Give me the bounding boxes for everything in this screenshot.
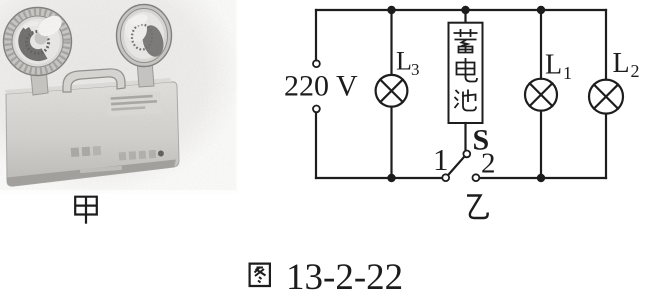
left lamp stalk — [30, 66, 48, 95]
battery char 电 — [457, 58, 478, 82]
220V upper terminal — [313, 60, 320, 67]
L3 branch upper wire — [390, 10, 392, 75]
left vertical upper — [315, 10, 317, 60]
label 乙 — [467, 196, 488, 219]
node: L3 bottom junction — [387, 174, 395, 182]
svg-text:L: L — [613, 48, 630, 79]
label 甲 — [75, 197, 97, 224]
battery branch top wire — [464, 10, 466, 23]
node: L1 top junction — [537, 6, 545, 14]
battery to switch wire — [464, 123, 466, 151]
L3 branch lower wire — [390, 107, 392, 178]
node: L3 top junction — [387, 6, 395, 14]
svg-text:3: 3 — [411, 60, 420, 79]
right lamp stalk — [137, 61, 154, 87]
tiny text line bottom of body — [80, 166, 122, 173]
body of unit — [5, 78, 179, 186]
indicator row — [119, 149, 164, 160]
svg-text:1: 1 — [563, 63, 572, 83]
caption char 图 — [250, 264, 270, 286]
left lamp head — [4, 8, 72, 76]
small switches on body — [71, 146, 102, 157]
svg-text:1: 1 — [433, 142, 449, 177]
node: L1 bottom junction — [537, 174, 545, 182]
node: battery top junction — [461, 6, 469, 14]
switch blade — [448, 157, 464, 176]
photo of emergency light (unit 甲) — [0, 0, 238, 194]
battery char 蓄 — [454, 29, 478, 53]
svg-text:L: L — [545, 50, 562, 81]
svg-text:L: L — [396, 47, 412, 76]
switch contact 2 — [473, 174, 480, 181]
L1 branch lower wire — [540, 111, 542, 178]
handle — [63, 69, 125, 92]
220V lower terminal — [313, 106, 320, 113]
bottom wire right segment — [480, 177, 606, 179]
L3 lamp — [376, 75, 408, 107]
L2 lamp — [589, 80, 623, 114]
circuit schematic — [313, 10, 623, 181]
left vertical lower — [315, 112, 317, 178]
svg-text:220 V: 220 V — [284, 70, 358, 103]
bottom wire left segment — [316, 177, 442, 179]
svg-text:2: 2 — [481, 148, 496, 180]
right vertical bottom — [605, 114, 607, 178]
right lamp head — [117, 5, 172, 67]
switch pivot — [463, 151, 470, 158]
svg-text:13-2-22: 13-2-22 — [286, 257, 403, 296]
battery char 池 — [455, 90, 477, 111]
L1 lamp — [525, 79, 557, 111]
small label on body top right — [106, 91, 161, 116]
junction dots — [387, 6, 545, 182]
svg-text:2: 2 — [631, 61, 640, 81]
top wire — [316, 9, 606, 11]
battery box — [449, 23, 483, 123]
switch contact 1 — [442, 174, 449, 181]
right branch (L2) vertical top — [605, 10, 607, 80]
L1 branch upper wire — [540, 10, 542, 79]
